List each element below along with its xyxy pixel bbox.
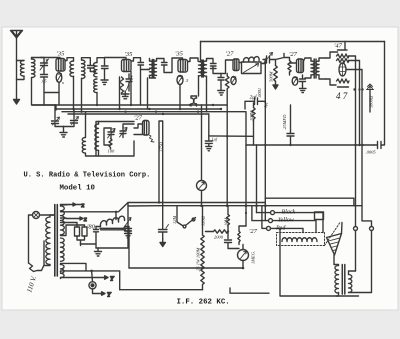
volume control dashed box — [277, 233, 325, 246]
wire L3 top — [97, 58, 105, 63]
ground (filter) — [95, 248, 102, 256]
junction dot choke — [115, 211, 117, 213]
wire grid return 47 — [326, 52, 338, 85]
switch S1 — [177, 206, 196, 228]
svg-text:500M: 500M — [269, 71, 274, 82]
bus line 3 — [62, 112, 246, 145]
wire box to V4 grid — [134, 124, 143, 135]
wire R6 top — [276, 54, 290, 61]
ground (V6) — [300, 86, 307, 93]
wire 247 down — [245, 145, 247, 226]
T3 right coil — [316, 61, 319, 75]
junction dots mid — [264, 144, 364, 146]
wire V3 cathode to bus — [179, 85, 181, 110]
IF T2 capacitor — [211, 64, 217, 71]
pilot lamp — [33, 212, 40, 219]
svg-text:.25 1W 100M: .25 1W 100M — [196, 247, 201, 272]
choke core line — [100, 228, 126, 230]
resistor R8 tall — [201, 235, 204, 284]
resistor R11 — [238, 231, 240, 242]
capacitor heater bypass with arrow — [123, 203, 132, 238]
wire AVC left drop — [200, 42, 202, 62]
trimmer cap X1 — [108, 128, 116, 139]
junction dot y268 — [201, 267, 244, 270]
coil PSU heater winding — [61, 265, 65, 278]
wire L2 sec bottom — [81, 79, 83, 112]
wire R7 down to y145 — [253, 122, 255, 146]
V7 bottom bar — [338, 86, 348, 88]
wire L2 primary bottom to bus — [73, 76, 75, 110]
resistor R6 AF1 grid — [288, 61, 291, 73]
filter cap left — [94, 227, 99, 249]
volume pot winding — [282, 238, 317, 242]
wire V3 plate to IF2 — [188, 58, 199, 62]
wire Red — [262, 206, 303, 233]
junction dot R9-C13 — [227, 230, 229, 232]
junction dots heater — [158, 201, 281, 229]
antenna — [11, 31, 23, 39]
svg-text:'27: '27 — [289, 51, 298, 58]
wire R4 vertical down — [226, 74, 228, 206]
T4 core — [342, 265, 345, 295]
IF transformer T2 primary — [199, 62, 202, 76]
wire IF1 sec to V3 grid — [164, 58, 183, 73]
svg-text:'35: '35 — [175, 51, 184, 58]
IF T1 secondary top wire — [157, 59, 165, 63]
wiper arrow cone — [327, 223, 343, 256]
wire y287 bottom left — [120, 289, 203, 291]
capacitor C9 .0005 inline — [374, 142, 381, 149]
resistor R10 vertical small — [227, 215, 230, 227]
meter circle — [197, 181, 207, 191]
capacitor C4 with ground — [101, 58, 108, 85]
coil L4 oscillator — [95, 124, 99, 150]
svg-text:1μf: 1μf — [212, 137, 218, 142]
capacitor C11 with ground — [205, 114, 212, 151]
tube V2 '35 envelope — [122, 60, 132, 72]
capacitor C6 det — [218, 74, 224, 86]
capacitor C3 coupling — [88, 58, 96, 72]
capacitor C12 with down arrow — [159, 225, 169, 247]
wire y136 stub — [209, 135, 254, 137]
wire y293 — [230, 288, 269, 293]
tube V8 circle (1st AF triode) — [238, 250, 249, 261]
wire bias link — [44, 92, 59, 94]
terminal Black — [271, 211, 275, 215]
coil L1 antenna primary — [20, 61, 24, 77]
heater wire B — [159, 205, 362, 207]
bus line 1 — [32, 104, 227, 106]
coil L4b external — [82, 112, 96, 156]
interstage transformer T3 left coil — [311, 61, 314, 75]
wire heater lead 3 — [61, 278, 99, 279]
T4 wires — [334, 231, 372, 297]
wire cap down to bus — [43, 84, 45, 105]
volume wiper dashed — [325, 223, 341, 246]
ground (det) — [218, 85, 225, 95]
wire L1 bottom return — [17, 76, 25, 79]
svg-text:x: x — [83, 217, 87, 223]
svg-text:'27: '27 — [134, 115, 143, 122]
resistor R3 V4 cathode — [149, 135, 154, 142]
junction dot heater — [90, 270, 93, 273]
wire V2 bias to bus — [120, 72, 132, 110]
output transformer T4 primary — [335, 266, 339, 294]
ground rail caps — [96, 247, 128, 249]
jack rect — [315, 212, 324, 220]
wire osc coil taps — [98, 122, 100, 157]
wire antenna lead-in — [16, 38, 18, 96]
svg-text:4 7: 4 7 — [336, 91, 348, 101]
tube V3 cathode circle — [177, 76, 183, 85]
wire V7 taps down — [356, 90, 372, 227]
wire primary ends — [44, 215, 55, 266]
wire y268 to V8 — [203, 267, 244, 269]
tube V4 '27 envelope — [143, 121, 150, 136]
resistor R1 cathode V2 — [120, 77, 124, 94]
IF T2 secondary — [203, 61, 207, 76]
filter cap right — [125, 227, 131, 249]
V7 grid zigzag 1 — [337, 54, 350, 58]
IF T2 core — [202, 60, 204, 77]
capacitor C1 variable tuning — [40, 58, 49, 72]
oscillator box outline — [96, 122, 134, 157]
wire V8 bottom to line — [242, 261, 244, 269]
tube V1 '35 envelope — [56, 59, 65, 72]
svg-text:'27: '27 — [226, 51, 235, 58]
IF T2 sec wires — [207, 59, 214, 81]
terminal Red — [267, 226, 271, 230]
svg-text:'35: '35 — [57, 51, 66, 58]
svg-text:x: x — [81, 203, 85, 209]
wire det plate to choke — [239, 59, 267, 101]
fuse circle — [89, 282, 96, 289]
wire R8 top — [202, 206, 204, 235]
tube V1 cathode — [56, 73, 62, 83]
wire choke out down — [126, 227, 129, 269]
svg-text:100M: 100M — [249, 110, 254, 121]
svg-text:120Ω: 120Ω — [201, 215, 206, 226]
wire R11 — [239, 226, 246, 245]
wire lamp to core — [29, 215, 55, 263]
trimmer cap X2 — [120, 127, 128, 138]
wire Black — [257, 213, 324, 233]
arrow (R5 bottom) — [273, 81, 278, 89]
svg-text:10M: 10M — [224, 218, 229, 227]
wire IF2 to det grid — [213, 60, 233, 74]
svg-text:1μf: 1μf — [263, 101, 268, 108]
coil PSU secondary HV — [61, 206, 65, 235]
IF T1 primary coil — [150, 61, 153, 75]
wire V4 down pair — [159, 121, 163, 229]
heater wire A — [61, 203, 266, 212]
IF T1 capacitor right — [162, 63, 168, 71]
wire IF2 coupling down — [199, 76, 207, 112]
wire R10 — [227, 206, 229, 232]
tube V6 '27 AF1 envelope — [297, 59, 304, 73]
svg-text:.25MFD: .25MFD — [282, 114, 287, 130]
wire y268 — [129, 267, 203, 269]
capacitor C5 bypass arrow — [126, 74, 132, 91]
svg-text:Red: Red — [275, 226, 286, 232]
IF transformer T1 capacitor left — [138, 63, 148, 70]
ground (antenna) — [14, 96, 20, 104]
wire secondary top to grid line — [32, 58, 61, 60]
wire R8 bottom — [202, 285, 204, 290]
T3 wires — [305, 58, 326, 79]
svg-text:175Ω: 175Ω — [159, 141, 164, 152]
svg-text:.0001: .0001 — [257, 88, 262, 98]
svg-text:U. S. Radio & Television Corp.: U. S. Radio & Television Corp. — [24, 172, 151, 180]
rectifier '80 plates — [61, 223, 97, 245]
resistor R4 det — [225, 76, 229, 89]
wire Yellow — [252, 206, 316, 233]
wire V7 leads right — [346, 56, 362, 90]
V7 grid zigzag 2 — [337, 59, 350, 63]
wire secondary bottom down — [32, 78, 57, 105]
coil L2 RF primary — [70, 61, 74, 77]
wire L3 bottom to bus — [96, 93, 98, 105]
wire det out vertical — [245, 101, 265, 109]
T4 secondary — [349, 275, 352, 293]
bus line 4 — [68, 113, 209, 115]
choke top stub — [115, 212, 117, 220]
wire rect to choke — [81, 227, 101, 246]
wire V2 plate to IF1 — [131, 58, 141, 62]
svg-text:I.F. 262 KC.: I.F. 262 KC. — [177, 299, 230, 307]
T3 core — [314, 59, 316, 78]
wire 2uf drop — [256, 145, 258, 213]
terminal Yellow — [269, 219, 273, 223]
wire meter verticals — [201, 105, 203, 206]
wire right edge drop — [381, 42, 385, 146]
wire V1 cathode down — [58, 83, 60, 106]
speaker field marks — [367, 84, 374, 90]
bus line 2 — [56, 108, 221, 110]
wave trap coils lower — [191, 96, 197, 106]
capacitor C13 — [225, 232, 237, 249]
svg-text:'27: '27 — [249, 228, 258, 235]
coil L3 lower — [94, 79, 97, 93]
junction dots 47 — [353, 88, 363, 90]
tube V3 '35 envelope — [178, 60, 188, 73]
wire R7 top — [253, 103, 255, 108]
capacitor C10 .25mfd — [287, 105, 294, 145]
resistor R5 500M — [274, 66, 278, 82]
IF T1 secondary coil — [153, 61, 156, 75]
wire AF plate link y198 — [265, 198, 354, 206]
wire L2 primary top — [73, 58, 75, 61]
wire mid horizontal y145 — [246, 144, 374, 146]
wire R9 left — [206, 231, 214, 233]
svg-text:2000: 2000 — [214, 235, 224, 240]
svg-text:Model 10: Model 10 — [60, 185, 96, 193]
svg-text:12M: 12M — [172, 216, 177, 225]
svg-text:1MEG.: 1MEG. — [251, 251, 256, 264]
wire R6 to V6 grid — [290, 63, 297, 75]
tube V5 '27 detector envelope — [233, 59, 239, 71]
coil PSU secondary low — [61, 252, 65, 261]
wire field down — [369, 90, 371, 113]
wire bus1 corner down to PSU — [55, 105, 57, 110]
wire V8 top — [237, 245, 244, 250]
IF T1 primary wire — [148, 59, 156, 79]
trimmer C7 — [263, 53, 273, 64]
wire L2 sec top to grid line — [82, 58, 89, 60]
arrow Y1 — [98, 276, 108, 279]
wire osc internals — [104, 124, 134, 145]
arrow X2 — [61, 217, 84, 220]
heater wire B left join — [128, 205, 159, 207]
det bypass circle — [231, 77, 236, 85]
V6 cathode circle — [292, 77, 298, 85]
V7 cathode oval — [339, 63, 346, 76]
svg-text:'47: '47 — [334, 43, 343, 50]
choke det plate (tuned, boxed) — [242, 57, 262, 74]
V7 grid zigzag 3 — [337, 79, 350, 83]
wire heater lead 2 — [61, 271, 120, 290]
wire left volume down — [280, 229, 359, 296]
coil PSU secondary mid — [61, 238, 65, 252]
svg-text:Yellow: Yellow — [278, 218, 294, 224]
arrow X1 — [61, 203, 82, 206]
wire V1 plate to top — [65, 58, 74, 61]
coil L2 secondary — [82, 60, 86, 78]
resistor R2 osc grid — [109, 139, 112, 150]
wire ant to L1 — [17, 60, 25, 62]
capacitor pair with ground below stage1 — [52, 105, 79, 137]
coil L3 upper — [94, 63, 97, 77]
wire to fuse — [92, 271, 105, 295]
resistor R7 vertical — [252, 108, 255, 122]
svg-text:.0005: .0005 — [366, 150, 377, 155]
svg-text:'80: '80 — [87, 224, 96, 231]
filter choke — [100, 216, 124, 226]
svg-text:100: 100 — [108, 149, 116, 154]
transformer core — [55, 205, 58, 277]
capacitor 2uf det — [250, 98, 262, 105]
svg-text:.05: .05 — [41, 79, 47, 84]
capacitor C8 V6 cathode — [300, 75, 306, 86]
wire sec top up — [355, 231, 357, 272]
tube V7 47 plate bar — [338, 42, 348, 51]
top AVC wire — [201, 41, 385, 43]
wire grid line into V2 — [105, 58, 127, 60]
svg-text:1800Ω: 1800Ω — [369, 95, 374, 108]
wire IF area verticals — [141, 70, 148, 110]
wire verticals mid — [264, 101, 266, 220]
coil L1 secondary — [32, 59, 36, 77]
IF T1 core — [152, 60, 154, 78]
coil PSU primary — [46, 217, 50, 265]
resistor R9 horizontal — [214, 230, 229, 233]
wire V6 plate — [304, 58, 306, 61]
wire trimmer to R5 — [273, 60, 276, 66]
wire 110v kink — [29, 241, 45, 272]
capacitor C2 .05 — [41, 71, 48, 84]
svg-text:Black: Black — [282, 210, 296, 216]
speaker terminals circles — [354, 227, 358, 231]
svg-text:'35: '35 — [125, 51, 134, 58]
wire heater lead 1 — [61, 263, 87, 271]
junction dots on buses — [72, 104, 228, 138]
ground (V2 cathode) — [122, 91, 130, 99]
